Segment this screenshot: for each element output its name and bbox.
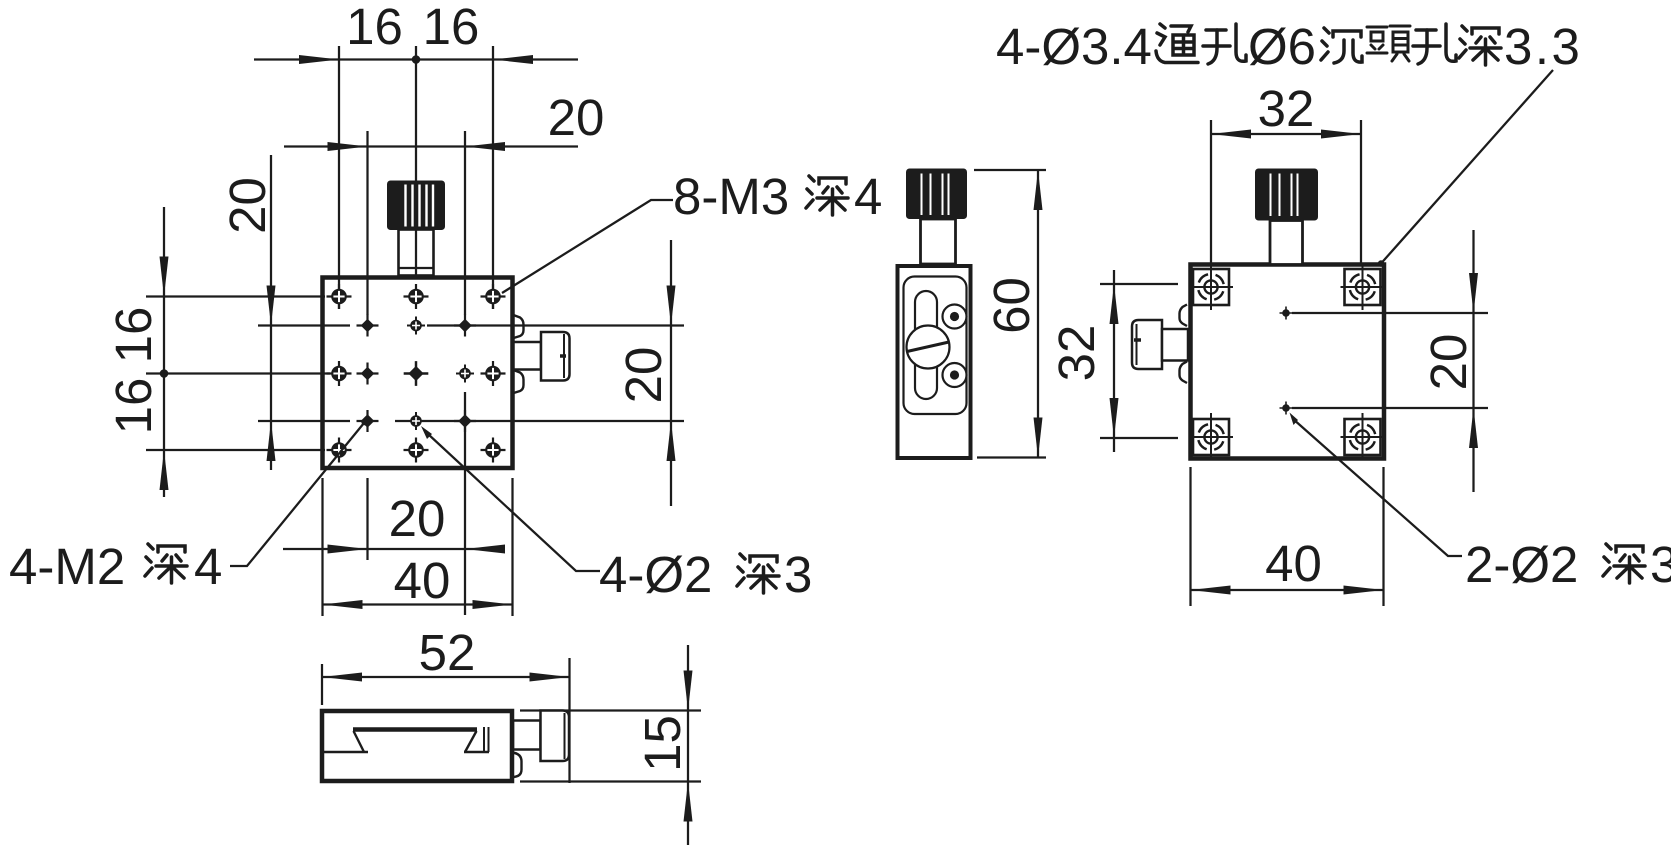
dimension 16 16 (left vertical) [105,207,169,497]
knob shaft (front view) [399,230,434,276]
svg-text:3: 3 [1650,536,1671,593]
stage outline (front view) [323,278,513,469]
dimension 40 (bottom) [323,478,513,616]
right side tab upper (front view) [512,315,524,339]
dimension 16 16 (top) [254,0,578,64]
label 8-M3 deep4 [673,168,882,225]
leader 4-O2 [421,426,600,571]
center pin top (back view) [1280,307,1489,320]
svg-text:4: 4 [194,538,222,595]
clamp shaft left (back view) [1162,329,1188,361]
leader 8-M3 [502,200,673,293]
clamp knob head (bottom view) [541,711,570,762]
centerline x=416 through knob [415,46,417,277]
svg-text:60: 60 [983,277,1040,334]
M3 hole mid-left [327,361,352,386]
svg-text:16: 16 [423,0,480,55]
leader 4-M2 [230,419,368,566]
svg-text:15: 15 [634,715,691,772]
knurled knob (front view) [387,181,445,231]
M3 hole top-left [327,284,352,309]
M3 hole mid-right [481,361,506,386]
side view body [898,266,971,458]
svg-text:4-M2: 4-M2 [9,538,125,595]
svg-text:Ø6: Ø6 [1248,18,1316,75]
bottom view body [322,711,512,781]
M3 hole top-center [404,284,429,309]
left tab lower (back view) [1180,362,1188,384]
dimension 60 [974,170,1046,458]
clamp shaft right (front view) [513,342,541,370]
svg-text:20: 20 [615,347,672,404]
extension line x=465 upper [464,131,466,315]
row line y=373.5 [146,372,330,374]
dimension 52 [322,624,570,783]
screw head (side view) [907,326,950,369]
right side tab lower (front view) [512,370,524,394]
pin top (side view) [943,305,967,329]
extension line x=367.5 upper [366,131,368,315]
row line y=325.5 right part [427,324,684,326]
slot (side view) [915,291,937,399]
bottom view right bump [512,753,522,778]
counterbore hole pad bottom-right [1341,413,1385,460]
svg-text:4: 4 [854,168,882,225]
clamp knob head left (back view) [1132,320,1162,369]
extension line x=339 [338,46,340,309]
counterbore hole pad bottom-left [1189,413,1233,460]
extension line x=1361 [1360,120,1362,263]
dimension 20 (bottom) [283,490,505,554]
svg-text:16: 16 [346,0,403,55]
label 2-O2 deep3 [1465,536,1671,593]
dovetail groove [324,727,489,752]
O2 hole right [456,365,474,383]
M3 hole bottom-right [481,438,506,463]
dimension 20 (left vertical) [219,155,276,470]
svg-text:20: 20 [389,490,446,547]
svg-text:8-M3: 8-M3 [673,168,789,225]
label 4-M2 deep4 [9,538,222,595]
O2 hole bottom [407,412,425,430]
diamond mid-left [357,363,379,385]
svg-text:16 16: 16 16 [105,307,162,435]
label 4-O3.4 through hole O6 counterbore deep 3.3 [996,18,1582,75]
svg-text:32: 32 [1048,325,1105,382]
dimension 32 (top, back view) [1211,80,1361,139]
row line y=421 left stub [258,420,350,422]
M3 hole bottom-center [404,438,429,463]
svg-text:20: 20 [1420,334,1477,391]
knurled knob (back view) [1255,169,1318,221]
svg-text:40: 40 [1265,535,1322,592]
center diamond [404,361,429,386]
svg-text:20: 20 [219,177,276,234]
counterbore hole pad top-left [1189,263,1233,310]
center pin bottom (back view) [1280,402,1489,415]
clamp knob head right (front view) [541,332,570,381]
M2 hole bottom-right diamond [454,410,476,432]
pin bottom (side view) [943,363,967,387]
svg-text:3: 3 [784,546,812,603]
O2 hole top [407,317,425,335]
stage outline (back view) [1191,265,1385,459]
svg-text:20: 20 [548,89,605,146]
carriage plate (side view) [904,277,967,415]
svg-text:52: 52 [419,624,476,681]
M2 hole top-left diamond [357,315,379,337]
dimension 15 (bottom view height) [520,645,701,845]
dimension 20 (right, back view) [1420,230,1478,492]
counterbore hole pad top-right [1341,263,1385,310]
svg-text:4-Ø2: 4-Ø2 [599,546,712,603]
svg-text:4-Ø3.4: 4-Ø3.4 [996,18,1152,75]
dimension 20 (top right) [284,89,604,151]
label 4-O2 deep3 [599,546,812,603]
row line y=296.5 left stub [146,295,325,297]
M2 hole bottom-left diamond [357,410,379,432]
knurled knob (side view) [906,169,967,220]
extension line x=367.5 lower [366,478,368,560]
row line y=450 left stub [146,449,325,451]
clamp shaft (bottom view) [513,721,541,750]
extension line x=465 lower [464,392,466,615]
dimension 40 (bottom, back view) [1191,467,1384,606]
extension line x=493 [492,46,494,309]
svg-text:2-Ø2: 2-Ø2 [1465,536,1578,593]
leader 2-O2 [1290,413,1463,557]
knob shaft (side view) [921,219,956,264]
M2 hole top-right diamond [454,315,476,337]
row line y=421 right part [395,420,684,422]
M3 hole bottom-left [327,438,352,463]
svg-text:40: 40 [394,552,451,609]
knob shaft (back view) [1270,221,1303,265]
svg-text:32: 32 [1258,80,1315,137]
left tab upper (back view) [1180,305,1188,327]
row line y=325.5 left stub [258,324,350,326]
M3 hole top-right [481,284,506,309]
dimension 32 (left, back view) [1048,270,1178,452]
dimension 20 (right vertical) [615,240,676,506]
leader counterbore note [1378,70,1553,267]
extension line x=1211 [1210,120,1212,263]
svg-text:3.3: 3.3 [1504,18,1582,75]
